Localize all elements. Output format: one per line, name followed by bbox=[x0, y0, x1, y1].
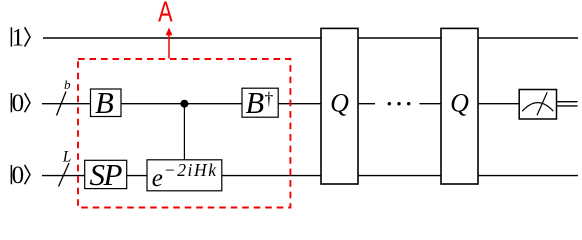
ket label |1> top wire bbox=[11, 25, 30, 52]
gate B dagger bbox=[242, 86, 278, 120]
wire: bottom qubit line bbox=[42, 175, 578, 177]
svg-text:b: b bbox=[64, 77, 71, 92]
red dashed region box bbox=[78, 59, 290, 208]
svg-text:Q: Q bbox=[330, 89, 349, 118]
red arrow to label A bbox=[166, 28, 173, 59]
svg-text:A: A bbox=[158, 0, 173, 29]
svg-text:0: 0 bbox=[12, 90, 25, 117]
ellipsis dots on middle wire bbox=[388, 102, 411, 105]
gate Q (first) bbox=[321, 28, 358, 184]
classical double wire bbox=[557, 102, 578, 106]
svg-text:L: L bbox=[62, 148, 72, 165]
wire: middle qubit line (right of dots) bbox=[420, 103, 520, 105]
svg-text:1: 1 bbox=[12, 25, 25, 52]
svg-text:B: B bbox=[95, 86, 114, 120]
ket label |0> bottom wire bbox=[11, 162, 30, 189]
gate B bbox=[91, 86, 122, 120]
control vertical wire bbox=[183, 104, 185, 160]
control dot on middle wire bbox=[180, 100, 188, 108]
gate Q (second) bbox=[441, 28, 478, 184]
gate SP bbox=[85, 157, 127, 192]
wire: top qubit line bbox=[43, 37, 578, 39]
bus slash bottom wire bbox=[59, 163, 70, 187]
svg-text:B: B bbox=[246, 86, 265, 120]
ket label |0> middle wire bbox=[11, 90, 30, 117]
measurement meter bbox=[519, 90, 556, 120]
svg-text:e: e bbox=[152, 165, 163, 192]
svg-text:−2iHk: −2iHk bbox=[164, 160, 218, 180]
gate e^-2iHk bbox=[147, 160, 222, 192]
wire: middle qubit line (left of dots) bbox=[42, 103, 375, 105]
bus slash middle wire bbox=[57, 92, 67, 116]
svg-text:0: 0 bbox=[12, 162, 25, 189]
svg-text:Q: Q bbox=[450, 89, 469, 118]
svg-text:†: † bbox=[265, 88, 274, 108]
svg-text:SP: SP bbox=[89, 157, 122, 192]
